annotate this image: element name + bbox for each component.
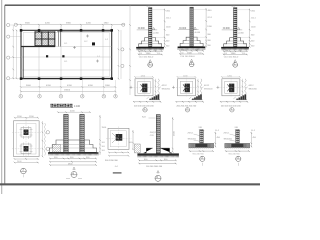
svg-text:3600: 3600 [25,23,31,25]
svg-text:3600: 3600 [26,85,32,87]
svg-text:4200: 4200 [45,23,51,25]
svg-text:1:100: 1:100 [74,105,81,108]
svg-text:18000: 18000 [64,90,71,92]
svg-text:300 1200 300: 300 1200 300 [105,160,119,162]
svg-text:100 100 2000 100: 100 100 2000 100 [146,166,163,168]
svg-text:4200: 4200 [46,85,52,87]
svg-text:Φ8@200: Φ8@200 [150,131,159,134]
svg-text:1800: 1800 [105,85,111,87]
svg-text:4200: 4200 [86,23,92,25]
svg-text:3900: 3900 [66,23,72,25]
svg-text:1800: 1800 [104,23,110,25]
svg-text:4200: 4200 [67,85,73,87]
svg-text:4200: 4200 [88,85,94,87]
